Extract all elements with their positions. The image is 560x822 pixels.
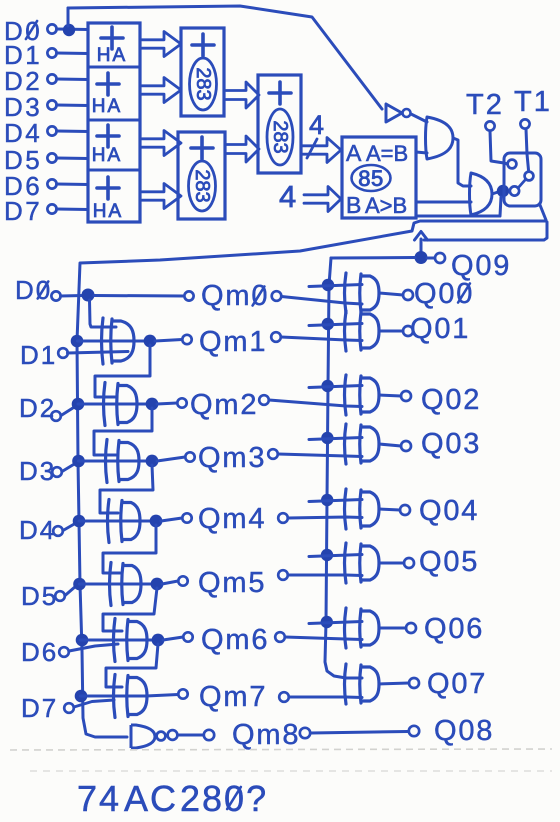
terminal circle Qm6 right: [275, 632, 285, 642]
adder U2 283 (box B): [178, 132, 225, 219]
wire rail to XOR X10 input: [309, 285, 362, 287]
terminal circle Qm0 left: [184, 291, 193, 300]
svg-text:Qm4: Qm4: [198, 503, 266, 535]
junction node rail Q03: [321, 432, 333, 444]
wire D7 into XOR X7: [74, 700, 114, 707]
junction node Qm2 output: [146, 398, 159, 411]
XOR gate X2 (Qm2): [104, 383, 106, 426]
svg-text:D0: D0: [15, 275, 52, 305]
terminal circle D1 (top): [47, 48, 56, 57]
svg-text:Q08: Q08: [434, 715, 494, 747]
junction node Qm6 output: [152, 634, 165, 647]
svg-text:D3: D3: [19, 456, 56, 486]
XOR gate X16 (Q06): [345, 608, 347, 648]
terminal circle D6 (top): [47, 179, 56, 188]
half-adder column box HA1-HA4: [88, 23, 140, 222]
wire Qm4 to XOR X14 input: [288, 517, 362, 518]
junction node Qm5 output: [151, 578, 164, 591]
bus arrow adder A to adder C: [226, 82, 259, 108]
junction node D3 on rail: [72, 455, 85, 468]
wire Qm5 to XOR X15 input: [288, 574, 362, 578]
comparator U4 85 box: [342, 137, 416, 218]
terminal circle Qm1 right: [271, 332, 281, 342]
svg-text:283: 283: [192, 67, 214, 100]
wire Qm4 output to terminal: [161, 518, 182, 521]
terminal circle Qm8 right: [300, 728, 310, 738]
svg-text:HA: HA: [97, 45, 127, 66]
terminal circle Q05: [404, 558, 414, 568]
wire T1 to switch common: [526, 129, 529, 170]
wire top rail to inverter input (long diagonal): [68, 6, 382, 109]
terminal circle Qm2 right: [259, 395, 269, 405]
wire chain Qm6 to XOR X7: [106, 644, 158, 687]
slash on zero of D0 label (top): [26, 21, 37, 39]
switch contact circle c1: [508, 160, 517, 169]
junction node D5 on rail: [73, 578, 86, 591]
oval of adder A: [190, 58, 217, 110]
svg-text:T1: T1: [514, 86, 552, 118]
terminal circle D4 (bottom): [53, 526, 63, 536]
terminal circle D0 (bottom): [51, 291, 60, 300]
terminal circle T1: [520, 119, 529, 128]
wire A=B to gate G1: [416, 152, 427, 153]
svg-text:D6: D6: [21, 637, 58, 667]
terminal circle Qm1 left: [182, 335, 191, 344]
slash on zero of Qm0: [253, 287, 265, 306]
wire rail to XOR X16 input: [309, 622, 362, 624]
junction node D2 on rail: [72, 398, 85, 411]
junction node rail Q06: [321, 616, 333, 628]
terminal circle Qm8 left: [204, 730, 214, 740]
XOR gate X1 (Qm1): [102, 318, 104, 364]
wire wrap rail to bottom-left vertical rail: [77, 221, 546, 737]
terminal circle Qm6 left: [183, 632, 192, 641]
wire Qm2 output to terminal: [157, 403, 177, 404]
svg-text:Q06: Q06: [424, 613, 484, 645]
plus sign of HA1: [101, 27, 123, 49]
bus arrow HA3 to adder 283: [142, 131, 181, 156]
wire D0 to junction: [61, 294, 84, 298]
bus width slash on arrow: [307, 139, 317, 158]
buffer gate G3 (Qm8): [131, 725, 155, 748]
wire X13 output to terminal: [379, 444, 401, 446]
bus arrow adder C to comparator A: [302, 138, 341, 163]
terminal circle Qm5 right: [278, 570, 288, 580]
slash on zero of caption: [227, 787, 241, 809]
junction node rail row1: [71, 335, 84, 348]
junction node rail Q02: [321, 380, 333, 392]
wire X15 output to terminal: [379, 562, 404, 565]
junction node D6 on rail: [76, 634, 89, 647]
wire buffer to Qm8 terminal: [178, 734, 203, 737]
junction node G2 output: [497, 185, 509, 197]
terminal circle Q01: [403, 326, 413, 336]
svg-text:Qm2: Qm2: [190, 389, 258, 421]
wire chain Qm4 to XOR X5: [103, 525, 156, 573]
plus sign of adder B: [191, 137, 213, 159]
wire D3 to HA block: [57, 104, 89, 108]
wire switch to wrap rail: [540, 205, 546, 220]
switch common circle c2: [525, 172, 534, 181]
wire rail to XOR X11 input: [309, 324, 362, 326]
divider HA3/HA4: [88, 169, 140, 172]
wire chain Qm1 to XOR X2: [95, 345, 150, 397]
wire D2 to HA block: [57, 78, 89, 82]
svg-text:D4: D4: [4, 118, 42, 148]
bus arrow adder B to adder C: [226, 136, 259, 162]
junction node Q09: [415, 251, 428, 264]
svg-text:Qm6: Qm6: [201, 624, 269, 656]
svg-text:D5: D5: [21, 581, 58, 611]
terminal circle Qm5 left: [178, 576, 187, 585]
paper ruling line 2: [30, 770, 552, 772]
wire rail into XOR X17 input: [346, 677, 362, 680]
wire D4 to HA block: [57, 130, 89, 134]
svg-text:74: 74: [77, 778, 121, 819]
wire chain Qm2 to XOR X3: [94, 408, 152, 455]
adder U1 283 (box A): [181, 28, 224, 116]
terminal circle Q03: [401, 441, 411, 451]
arrowhead up at Q09 feed: [415, 232, 428, 241]
wire XOR X2 axis line: [78, 403, 152, 406]
junction node D0 (top): [63, 24, 75, 36]
slash on zero of Q00: [458, 284, 470, 303]
svg-text:HA: HA: [92, 96, 122, 117]
wire X14 output to terminal: [379, 509, 400, 510]
wire D0 to HA block: [57, 28, 89, 32]
svg-text:Q01: Q01: [410, 313, 470, 345]
wire Qm1 to XOR X11 input: [281, 337, 362, 341]
wire X16 output to terminal: [379, 627, 406, 630]
wire Qm6 to XOR X16 input: [285, 637, 362, 640]
junction node Qm3 output: [146, 455, 159, 468]
terminal circle Q06: [406, 623, 416, 633]
terminal circle after buffer: [168, 730, 178, 740]
wire D3 to rail junction: [62, 463, 76, 472]
wire Qm8 to Q08 terminal: [311, 732, 408, 734]
svg-text:Q05: Q05: [419, 546, 479, 578]
terminal circle D2 (top): [47, 74, 56, 83]
wire D5 to rail junction: [65, 586, 76, 596]
svg-text:D4: D4: [19, 515, 56, 545]
wire XOR X6 axis line: [80, 639, 158, 642]
svg-text:Q04: Q04: [419, 495, 479, 527]
terminal circle Q09: [435, 253, 445, 263]
wire rail to XOR X15 input: [309, 555, 362, 557]
wire rail to XOR X14 input: [309, 500, 362, 502]
svg-text:280?: 280?: [180, 778, 268, 819]
wire rail to XOR X12 input: [309, 386, 362, 388]
terminal circle D1 (bottom): [58, 348, 68, 358]
svg-text:AC: AC: [124, 778, 178, 819]
svg-text:283: 283: [269, 120, 291, 153]
wire Q09 junction up to feed: [420, 239, 423, 252]
terminal circle Qm3 right: [268, 449, 278, 459]
terminal circle D5 (top): [47, 153, 56, 162]
svg-text:Qm1: Qm1: [199, 326, 267, 358]
junction node rail Q00: [322, 279, 334, 291]
XOR gate X13 (Q03): [345, 424, 347, 464]
terminal circle Q07: [409, 678, 419, 688]
wire Q09 junction to right vertical rail: [331, 256, 415, 260]
wire switch rail down to Q09 feed: [424, 222, 547, 240]
terminal circle Q08 left: [409, 726, 419, 736]
terminal circle D3 (top): [47, 100, 56, 109]
XOR gate X15 (Q05): [345, 543, 347, 583]
junction node rail Q05: [321, 549, 333, 561]
XOR gate X3 (Qm3): [106, 440, 108, 483]
terminal circle Qm3 left: [185, 452, 194, 461]
wire chain Qm5 to XOR X6: [103, 588, 157, 631]
wire Qm2 to XOR X12 input: [269, 400, 362, 407]
terminal circle T2: [485, 121, 494, 130]
svg-text:HA: HA: [92, 145, 122, 166]
wire Qm7 output to terminal: [146, 695, 178, 697]
wire Qm0 to XOR X10 input: [282, 297, 363, 305]
wire Qm6 output to terminal: [163, 637, 183, 640]
plus sign of adder A: [192, 34, 214, 56]
wire Qm7 to XOR X17 input: [289, 696, 362, 700]
svg-text:Qm8: Qm8: [232, 719, 300, 751]
wire D0 branch down to XOR X1: [90, 300, 117, 327]
svg-text:Q03: Q03: [421, 428, 481, 460]
gate G1: [426, 117, 454, 159]
terminal circle D3 (bottom): [52, 467, 62, 477]
wire Qm3 to XOR X13 input: [278, 454, 362, 457]
wire X11 output to terminal: [379, 330, 403, 333]
junction node D7 on rail: [75, 690, 88, 703]
junction node Qm1 output: [144, 335, 157, 348]
terminal circle D2 (bottom): [51, 411, 61, 421]
wire D6 to HA block: [57, 183, 89, 187]
terminal circle Qm4 right: [278, 513, 288, 523]
terminal circle D5 (bottom): [55, 591, 65, 601]
wire Q09 junction to terminal: [427, 257, 435, 260]
divider HA1/HA2: [88, 66, 140, 69]
XOR gate X12 (Q02): [345, 375, 347, 415]
plus sign of adder C: [269, 82, 291, 104]
wire D4 to rail junction: [63, 523, 76, 531]
wire XOR X1 axis line: [78, 340, 151, 343]
svg-text:Q02: Q02: [421, 384, 481, 416]
svg-text:B: B: [346, 192, 363, 218]
paper ruling line 1: [10, 749, 552, 750]
inverter U5: [386, 104, 402, 122]
svg-text:85: 85: [358, 166, 383, 191]
terminal circle D4 (top): [47, 126, 56, 135]
wire D1 into XOR X1 lower input: [68, 352, 129, 354]
wire D0 junction up to top rail: [67, 8, 70, 26]
wire XOR X5 axis line: [80, 583, 158, 586]
XOR gate X17 (Q07): [345, 664, 347, 704]
junction node D0 branch: [82, 289, 95, 302]
junction node rail Q01: [322, 318, 334, 330]
adder U3 283 (box C): [258, 75, 301, 173]
oval of adder C: [267, 109, 293, 165]
wire XOR X4 axis line: [79, 520, 156, 523]
plus sign of HA4: [97, 177, 119, 199]
junction node rail Q04: [321, 494, 333, 506]
terminal circle D7 (bottom): [64, 703, 74, 713]
svg-text:Q07: Q07: [427, 668, 487, 700]
wire X12 output to terminal: [379, 395, 401, 396]
wire D7 to HA block: [57, 208, 89, 212]
terminal circle Qm7 left: [178, 689, 187, 698]
junction node Qm4 output: [150, 515, 163, 528]
wire D5 to HA block: [57, 157, 89, 161]
plus sign of HA3: [97, 125, 119, 147]
wire Qm5 output to terminal: [162, 581, 178, 584]
wire inverter to gate G1: [411, 114, 427, 122]
terminal circle Q02: [401, 391, 411, 401]
XOR gate X5 (Qm5): [110, 563, 112, 606]
wire XOR X7 axis line: [81, 695, 147, 698]
terminal circle D6 (bottom): [59, 647, 69, 657]
buffer G3 bubble: [157, 732, 166, 741]
XOR gate X4 (Qm4): [108, 500, 110, 543]
terminal circle D0 (top): [47, 24, 56, 33]
switch lever: [518, 180, 526, 189]
wire XOR X3 axis line: [79, 460, 153, 463]
oval of comparator: [352, 165, 391, 191]
divider HA2/HA3: [88, 119, 140, 122]
terminal circle Qm7 right: [279, 692, 289, 702]
right vertical rail: [325, 258, 346, 678]
svg-text:283: 283: [191, 169, 213, 202]
slash on zero of D0 label (bottom): [38, 282, 49, 299]
oval of adder B: [189, 161, 216, 211]
wire D2 to rail junction: [61, 406, 76, 416]
svg-text:A: A: [346, 140, 363, 166]
bus arrow HA2 to adder 283: [142, 78, 181, 103]
switch contact circle c3: [510, 186, 519, 195]
svg-text:A>B: A>B: [365, 193, 407, 218]
wire G1 output to gate G2: [453, 138, 471, 186]
XOR gate X14 (Q04): [345, 489, 347, 529]
svg-text:D7: D7: [21, 693, 58, 723]
wire junction down under comparator: [416, 197, 501, 216]
svg-text:Qm5: Qm5: [198, 567, 266, 599]
wire X10 output to terminal: [379, 293, 403, 295]
XOR gate X10 (Q00): [345, 273, 347, 313]
svg-text:A=B: A=B: [366, 141, 408, 166]
bus arrow HA1 to adder 283: [142, 32, 181, 57]
wire D6 into XOR X6: [69, 644, 118, 651]
wire T2 to switch contact: [490, 131, 508, 164]
plus sign of HA2: [97, 73, 119, 95]
terminal circle Q04: [400, 505, 410, 515]
wire A>B to gate G2: [416, 201, 471, 204]
wire Qm1 output to terminal: [155, 340, 182, 342]
svg-text:Qm3: Qm3: [198, 442, 266, 474]
terminal circle Qm0 right: [272, 291, 282, 301]
terminal circle Qm2 left: [177, 398, 186, 407]
svg-text:4: 4: [279, 179, 298, 214]
XOR gate X7 (Qm7): [114, 675, 116, 718]
terminal circle Qm4 left: [182, 513, 191, 522]
svg-text:D7: D7: [4, 196, 42, 226]
terminal circle Q00: [403, 290, 413, 300]
XOR gate X6 (Qm6): [114, 619, 116, 662]
wire D0 junction to Qm0 terminal: [94, 294, 184, 298]
svg-text:T2: T2: [466, 89, 504, 121]
wire D1 to HA block: [57, 52, 89, 56]
svg-text:Q00: Q00: [414, 278, 474, 310]
wire X17 output to terminal: [379, 683, 409, 684]
svg-text:HA: HA: [93, 201, 123, 222]
terminal circle D7 (top): [47, 204, 56, 213]
gate G2: [470, 173, 493, 215]
wire rail to XOR X13 input: [309, 438, 362, 440]
wire Qm3 output to terminal: [157, 457, 185, 461]
switch S1 box: [504, 153, 541, 206]
junction node D4 on rail: [73, 515, 86, 528]
bus arrow HA4 to adder 283: [142, 184, 181, 209]
wire G2 output to junction: [492, 192, 498, 194]
svg-text:D1: D1: [20, 340, 57, 370]
svg-text:Qm7: Qm7: [199, 681, 267, 713]
wire chain Qm3 to XOR X4: [100, 465, 153, 513]
XOR gate X11 (Q01): [345, 311, 347, 351]
svg-text:4: 4: [309, 110, 326, 140]
bus arrow constant to comparator B: [304, 187, 341, 212]
